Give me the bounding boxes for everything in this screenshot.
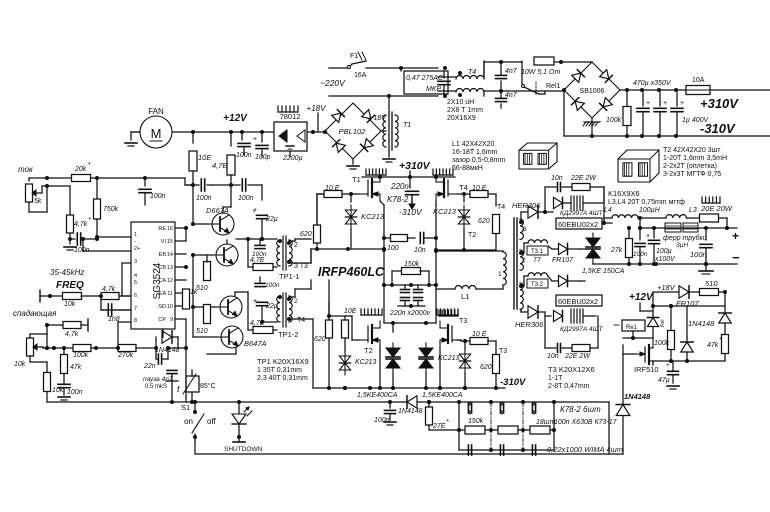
- box 60EBU02x2 top: [556, 218, 602, 229]
- resistor 510 aux: [700, 279, 726, 296]
- label +12V: [223, 113, 248, 124]
- wire comp: [156, 319, 186, 348]
- wire AC top: [329, 67, 438, 69]
- wire 12v drop: [640, 303, 655, 320]
- svg-text:T1: T1: [403, 122, 411, 129]
- svg-text:4n7: 4n7: [505, 92, 518, 99]
- diode module bot: [545, 306, 604, 333]
- svg-text:1-20T 1,6mm 3,5mH: 1-20T 1,6mm 3,5mH: [663, 155, 727, 162]
- svg-text:+: +: [666, 362, 670, 369]
- svg-text:KC213: KC213: [361, 212, 385, 221]
- wire freq pot: [39, 296, 41, 302]
- tvs 1,5KE400CA b: [419, 323, 463, 399]
- IC pin stubs left: [81, 235, 131, 350]
- wire L4 out: [638, 207, 666, 230]
- wire out minus: [593, 250, 740, 266]
- svg-text:IRFP460LC: IRFP460LC: [318, 265, 385, 279]
- svg-text:47k: 47k: [707, 342, 719, 349]
- transformer T3.2: [521, 273, 552, 288]
- wire tp12 out: [289, 280, 329, 388]
- wire -310 rail: [564, 90, 770, 138]
- heatsink T3 bot: [439, 310, 467, 325]
- svg-text:22E 2W: 22E 2W: [564, 353, 591, 360]
- svg-text:100µ: 100µ: [656, 248, 672, 255]
- svg-text:2200µ: 2200µ: [282, 155, 303, 162]
- svg-text:-310V: -310V: [700, 121, 736, 136]
- heatsink T4: [433, 169, 453, 175]
- zener KC213 g4: [433, 192, 470, 250]
- wire primary bottom: [476, 285, 503, 289]
- svg-text:T3: T3: [499, 348, 507, 355]
- svg-text:6: 6: [134, 293, 137, 299]
- svg-text:Rel: Rel: [660, 319, 666, 327]
- wire rel bottom: [623, 331, 653, 340]
- svg-text:100µH: 100µH: [639, 207, 661, 214]
- svg-text:M: M: [151, 126, 162, 141]
- svg-text:22µ: 22µ: [265, 303, 278, 310]
- capacitor 220n x2000v: [389, 279, 431, 317]
- svg-text:20X16X9: 20X16X9: [447, 115, 476, 122]
- resistor 4,7k 2: [47, 319, 88, 338]
- capacitor 100n tp2: [255, 277, 280, 289]
- mosfet T3: [440, 321, 461, 347]
- resistor 1k: [183, 280, 198, 319]
- label T2 42X42X20: [663, 147, 727, 178]
- resistor 22E 2W top: [570, 175, 604, 203]
- svg-text:L1: L1: [461, 292, 469, 301]
- svg-text:100: 100: [387, 245, 399, 252]
- svg-text:47µ: 47µ: [658, 377, 670, 384]
- resistor 4,7k freq: [101, 286, 131, 300]
- bridge SB1006: [564, 62, 620, 118]
- label T3 K20X12X6: [548, 365, 595, 390]
- svg-text:4n7: 4n7: [505, 68, 518, 75]
- svg-text:100n: 100n: [633, 251, 648, 258]
- LED shutdown: [224, 402, 263, 453]
- wire mid vertical 313: [312, 253, 314, 263]
- capacitor 22u drv2: [253, 298, 278, 322]
- wire src T2: [378, 347, 382, 390]
- label tok: [18, 165, 34, 174]
- svg-text:CP: CP: [158, 317, 166, 323]
- svg-text:100n: 100n: [374, 417, 390, 424]
- capacitor 100n f1: [633, 228, 648, 264]
- svg-text:2X8 T 1mm: 2X8 T 1mm: [447, 107, 483, 114]
- box 60EBU02x2 bot: [556, 295, 602, 306]
- core T2 bars: [514, 218, 517, 309]
- svg-text:2: 2: [294, 242, 298, 249]
- wire bank mid: [429, 428, 556, 432]
- svg-text:L1 42X42X20: L1 42X42X20: [452, 141, 495, 148]
- svg-text:SB1006: SB1006: [580, 88, 605, 95]
- diode HER306 top: [512, 201, 545, 218]
- wire +310 mid: [362, 171, 455, 179]
- svg-text:+: +: [663, 100, 667, 107]
- wire out plus: [638, 226, 739, 243]
- transformer T2 sec2: [519, 250, 526, 270]
- label +310V mid: [399, 160, 431, 172]
- svg-text:L3: L3: [689, 207, 697, 214]
- capacitor 10n snub bot: [545, 316, 572, 360]
- svg-text:VI: VI: [161, 239, 167, 245]
- label +310V: [700, 96, 739, 111]
- resistor 4,7k*: [67, 215, 92, 239]
- wire gate1 row: [348, 247, 386, 251]
- svg-text:+: +: [646, 100, 650, 107]
- svg-text:2X10 uH: 2X10 uH: [447, 99, 474, 106]
- svg-text:-310V: -310V: [500, 377, 526, 388]
- zener KC213 g1: [345, 192, 384, 249]
- bridge PBL102: [325, 103, 381, 159]
- svg-text:10: 10: [167, 304, 173, 310]
- capacitor bank top row: [468, 402, 535, 414]
- svg-text:+310V: +310V: [700, 96, 739, 111]
- label ~220V: [320, 78, 346, 88]
- resistor 10E g2: [342, 308, 360, 351]
- resistor 22E 2W bot: [564, 316, 598, 360]
- capacitor 22u drv1: [253, 196, 278, 239]
- svg-text:+: +: [680, 100, 684, 107]
- svg-text:60EBU02x2: 60EBU02x2: [558, 220, 598, 229]
- svg-text:+310V: +310V: [399, 160, 431, 172]
- svg-text:T3.1: T3.1: [531, 249, 544, 255]
- svg-text:K78-2: K78-2: [387, 195, 409, 204]
- wire thermo: [172, 370, 192, 402]
- wire aux 306: [653, 304, 725, 308]
- inductor L1 out: [436, 285, 476, 301]
- svg-text:2+: 2+: [134, 246, 140, 252]
- choke T4 mains: [438, 61, 484, 97]
- wire gate1: [311, 247, 350, 251]
- resistor 10 E g3: [457, 331, 496, 345]
- resistor 10 E g1: [317, 185, 359, 198]
- wire s1 bottom: [195, 441, 623, 454]
- capacitor 100n f2: [690, 228, 712, 264]
- wire left bus a: [28, 177, 30, 179]
- wire aux right: [723, 286, 727, 361]
- wire +310 rail: [620, 88, 770, 92]
- svg-text:IRF510: IRF510: [634, 365, 659, 374]
- svg-text:CB: CB: [158, 265, 166, 271]
- wire hv left: [317, 194, 324, 225]
- capacitor 100n ctrl3: [58, 384, 83, 400]
- svg-text:ферр трубки: ферр трубки: [663, 234, 707, 242]
- diode 1N4148 bus: [398, 396, 423, 415]
- wire rect out top: [583, 187, 612, 225]
- transformer T1 aux: [383, 94, 411, 162]
- svg-text:220n: 220n: [390, 182, 409, 191]
- svg-text:27k: 27k: [610, 247, 623, 254]
- svg-text:1N4148: 1N4148: [624, 392, 651, 401]
- svg-text:47k: 47k: [70, 364, 82, 371]
- wire bottom bus: [47, 400, 609, 404]
- wire bank left: [427, 400, 431, 404]
- svg-text:FREQ: FREQ: [56, 280, 84, 291]
- transformer TP1-2: [277, 293, 306, 339]
- IC pin numbers left: [134, 232, 140, 324]
- heatsink 20E: [702, 197, 720, 203]
- IC pin stubs right: [175, 226, 188, 319]
- capacitor 100n ctrl2: [64, 233, 99, 254]
- transistor Q1 D667A: [206, 206, 234, 235]
- svg-text:Re1: Re1: [626, 325, 638, 331]
- svg-text:ток: ток: [18, 165, 34, 174]
- svg-text:SD: SD: [158, 304, 166, 310]
- svg-text:*: *: [719, 337, 722, 344]
- wire bank verts: [459, 402, 554, 450]
- svg-text:+: +: [732, 229, 739, 243]
- svg-text:T4: T4: [459, 183, 468, 192]
- svg-text:16-18T 1,6mm: 16-18T 1,6mm: [452, 149, 498, 156]
- resistor 100k bleed: [606, 90, 631, 136]
- svg-text:-: -: [134, 239, 136, 245]
- wire bank bot: [459, 448, 554, 452]
- svg-text:T4: T4: [497, 204, 505, 211]
- svg-text:*: *: [446, 419, 449, 426]
- svg-text:14: 14: [167, 252, 173, 258]
- resistor 10k freq: [63, 293, 102, 309]
- svg-text:1,5KE 150CA: 1,5KE 150CA: [582, 268, 625, 275]
- wire irf gate: [623, 345, 636, 354]
- svg-text:510: 510: [196, 285, 208, 292]
- svg-text:150k: 150k: [468, 418, 484, 425]
- tvs 1,5KE400CA a: [357, 323, 400, 399]
- svg-text:KC213: KC213: [355, 359, 377, 366]
- IC pin numbers right: [167, 226, 173, 323]
- inductor L3: [666, 207, 697, 218]
- tvs 1,5KE150CA: [582, 228, 625, 275]
- mosfet T2: [359, 321, 380, 355]
- capacitor 10n snub top: [545, 175, 572, 192]
- svg-text:7: 7: [134, 306, 137, 312]
- label spadayushaya: [13, 309, 57, 318]
- wire drv emit1: [227, 240, 248, 273]
- svg-text:100k: 100k: [606, 117, 622, 124]
- wire 310 to stage: [409, 150, 411, 163]
- wire fan rail +12V: [131, 131, 325, 133]
- svg-text:1N4148: 1N4148: [688, 319, 715, 328]
- svg-text:1k: 1k: [190, 289, 198, 296]
- capacitor 100n drv2: [212, 179, 262, 202]
- svg-text:620: 620: [478, 218, 490, 225]
- svg-text:FR107: FR107: [552, 257, 574, 264]
- svg-text:3 T3: 3 T3: [294, 263, 308, 270]
- svg-text:100k: 100k: [654, 340, 670, 347]
- label IRFP460LC: [318, 265, 385, 279]
- wire 18V: [653, 283, 678, 306]
- diode FR107 t32: [548, 275, 580, 286]
- svg-text:4,7k: 4,7k: [65, 331, 79, 338]
- svg-text:100k: 100k: [73, 352, 89, 359]
- svg-text:KC213: KC213: [438, 355, 460, 362]
- capacitor 100n tp1: [252, 239, 267, 258]
- wire t2 gates lower: [295, 249, 329, 314]
- svg-text:4,7k: 4,7k: [74, 221, 88, 228]
- capacitor 10n snub: [414, 233, 436, 255]
- svg-text:~220V: ~220V: [320, 78, 346, 88]
- diode zen aux: [681, 306, 693, 361]
- wire mid rect: [580, 249, 593, 281]
- regulator U2 78012: [274, 112, 307, 151]
- capacitor bank bot row: [468, 445, 535, 455]
- label -18V: [371, 115, 387, 122]
- svg-text:9: 9: [170, 317, 173, 323]
- resistor 10 E g4: [457, 185, 493, 198]
- wire tp1 node: [236, 237, 277, 267]
- resistor 20E 20W: [687, 204, 733, 228]
- wire freq in: [40, 290, 63, 302]
- dashdot bank: [491, 402, 523, 450]
- ground out: [699, 262, 713, 274]
- svg-text:HER306: HER306: [515, 320, 544, 329]
- wire t1 sec to pbl: [324, 130, 326, 132]
- capacitor 470u x350V bank: [633, 80, 684, 136]
- diode 1N4148 aux1: [688, 313, 731, 328]
- svg-text:+18V: +18V: [657, 283, 676, 292]
- svg-text:T2: T2: [468, 232, 476, 239]
- svg-text:3: 3: [523, 226, 527, 233]
- capacitor 4n7 b: [496, 91, 518, 108]
- wire 5k lower: [29, 184, 70, 215]
- svg-text:T3 K20X12X6: T3 K20X12X6: [548, 365, 595, 374]
- wire bank top: [457, 400, 556, 404]
- wire drv emit2: [235, 267, 248, 296]
- svg-text:3µН: 3µН: [676, 242, 688, 249]
- inductor L4: [604, 207, 638, 223]
- label ferr trubki: [663, 234, 707, 249]
- resistor 750k: [94, 178, 119, 237]
- svg-text:+: +: [253, 136, 257, 143]
- svg-text:10k: 10k: [64, 301, 76, 308]
- svg-text:66-88мкН: 66-88мкН: [452, 165, 483, 172]
- svg-text:*: *: [88, 217, 91, 224]
- svg-text:on: on: [184, 417, 193, 426]
- capacitor 47u: [658, 361, 679, 389]
- svg-text:510: 510: [705, 279, 718, 288]
- resistor 4,7E tp2: [248, 320, 277, 334]
- svg-text:18шт: 18шт: [536, 419, 556, 426]
- wire src T3: [438, 347, 442, 390]
- svg-text:1,5KE400CA: 1,5KE400CA: [357, 392, 398, 399]
- svg-text:60EBU02x2: 60EBU02x2: [558, 297, 598, 306]
- svg-text:10W 5,1 Om: 10W 5,1 Om: [521, 69, 560, 76]
- transistor Q2: [212, 244, 238, 266]
- svg-text:0.5 mkS: 0.5 mkS: [145, 384, 167, 390]
- svg-text:*: *: [88, 162, 91, 169]
- wire drv coll2: [207, 348, 236, 354]
- svg-text:10n: 10n: [547, 353, 559, 360]
- wire mkp junction: [443, 94, 447, 98]
- wire soft start: [484, 60, 592, 77]
- wire ic vcc: [96, 178, 98, 186]
- label 1u 400V: [682, 117, 710, 124]
- svg-text:T1: T1: [352, 175, 361, 184]
- svg-text:10 E: 10 E: [325, 185, 340, 192]
- svg-text:4,7k: 4,7k: [102, 286, 116, 293]
- svg-text:F1: F1: [350, 53, 358, 60]
- capacitor X2 0,47 275AC MKP: [399, 66, 450, 94]
- svg-text:2: 2: [522, 257, 526, 264]
- svg-text:Rel1: Rel1: [546, 83, 561, 90]
- svg-text:T4: T4: [297, 317, 305, 324]
- svg-text:PBL102: PBL102: [339, 127, 367, 136]
- svg-text:T4: T4: [468, 69, 476, 76]
- capacitor 100n bus: [374, 400, 396, 425]
- wire src T4: [434, 201, 438, 323]
- capacitor 100p: [253, 132, 271, 161]
- wire src T1: [380, 201, 386, 323]
- label -310V: [700, 121, 736, 136]
- wire sec3 top: [521, 212, 528, 222]
- resistor 150k b: [485, 426, 518, 434]
- svg-text:CA: CA: [158, 278, 166, 284]
- svg-text:+: +: [253, 207, 257, 214]
- ground SB1006: [583, 118, 600, 136]
- svg-text:100n: 100n: [265, 282, 280, 289]
- label L1 42X42X20: [452, 141, 506, 172]
- wire bridge to T1: [381, 130, 386, 132]
- junction dots +12V rail: [191, 130, 327, 134]
- svg-text:3-2x3T МГТФ 0,75: 3-2x3T МГТФ 0,75: [663, 171, 721, 178]
- svg-text:5k: 5k: [34, 198, 42, 205]
- transformer TP1-1: [277, 236, 308, 281]
- capacitor 100n a: [236, 132, 252, 159]
- wire ic top right: [185, 228, 187, 241]
- potentiometer 10k: [14, 323, 49, 368]
- svg-text:TP1 K20X16X9: TP1 K20X16X9: [257, 357, 309, 366]
- svg-text:T3.2: T3.2: [531, 282, 544, 288]
- wire primary top: [436, 250, 503, 252]
- wire filt mid: [627, 262, 631, 266]
- svg-text:1: 1: [498, 271, 502, 278]
- svg-text:FAN: FAN: [148, 107, 164, 116]
- svg-text:10n: 10n: [414, 247, 426, 254]
- svg-text:10k: 10k: [14, 361, 26, 368]
- switch S1: [181, 402, 217, 441]
- svg-text:−: −: [732, 250, 740, 265]
- svg-text:зазор 0,5-0,8mm: зазор 0,5-0,8mm: [452, 157, 506, 164]
- svg-text:2-8T 0,47mm: 2-8T 0,47mm: [548, 383, 590, 390]
- heatsink 78012: [278, 106, 298, 112]
- wire drv vert 193: [186, 183, 195, 224]
- svg-text:1 35T 0,31mm: 1 35T 0,31mm: [257, 367, 302, 374]
- wire snub mid: [384, 283, 436, 287]
- capacitor 220n K78-2: [387, 177, 423, 217]
- svg-text:+12V: +12V: [629, 292, 654, 303]
- capacitor 100n ctrl1: [139, 178, 166, 205]
- svg-text:T3: T3: [459, 318, 467, 325]
- heatsink T1: [366, 169, 386, 175]
- wire tp11 out: [289, 239, 311, 263]
- svg-text:-310V: -310V: [399, 207, 423, 217]
- svg-text:L4: L4: [604, 207, 612, 214]
- diode 1N4148 fb: [155, 331, 180, 354]
- capacitor 100u f: [646, 226, 676, 266]
- svg-text:TP1-2: TP1-2: [278, 330, 298, 339]
- transformer T3.1: [521, 236, 552, 264]
- svg-text:11: 11: [167, 291, 173, 297]
- wire gate3 link: [313, 323, 462, 388]
- svg-text:КД2997А 4ШТ: КД2997А 4ШТ: [560, 210, 604, 217]
- label 35-45kHz FREQ: [50, 268, 84, 291]
- svg-text:620: 620: [480, 364, 492, 371]
- wire to SB1006: [484, 88, 566, 92]
- svg-text:10E: 10E: [198, 153, 212, 162]
- svg-text:+12V: +12V: [223, 113, 248, 124]
- svg-text:EA: EA: [159, 291, 167, 297]
- transformer T2 sec1: [519, 283, 523, 309]
- svg-text:2-2x2T (оплетка): 2-2x2T (оплетка): [663, 163, 717, 170]
